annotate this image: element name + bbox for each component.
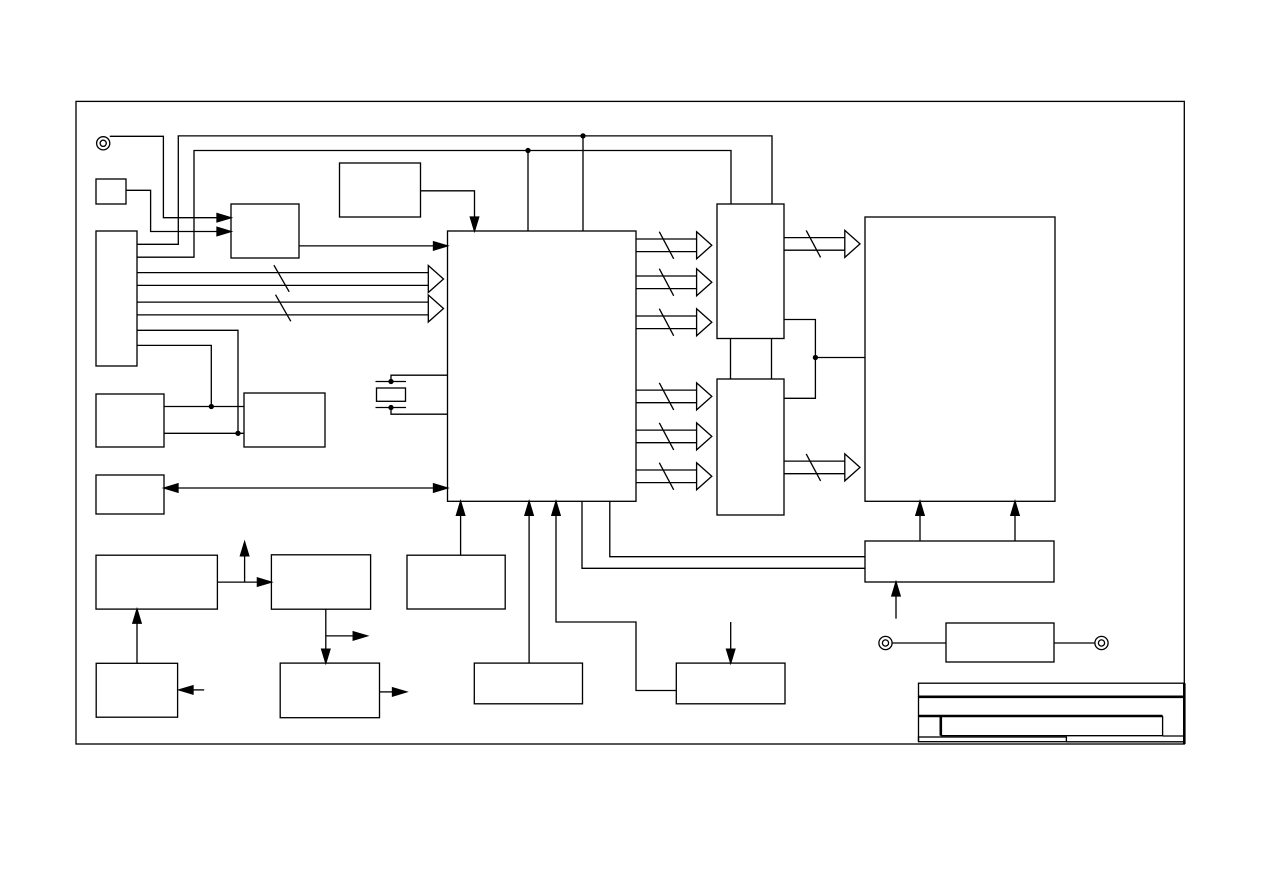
bus arrow central to R1 (2)	[636, 269, 712, 296]
bus slash	[659, 309, 673, 336]
box S small top-left	[96, 179, 126, 204]
arrow box C to central bottom	[456, 501, 464, 555]
bus arrow R2 to big box	[784, 454, 860, 481]
down arrow into box G top	[727, 622, 735, 663]
bus arrow T to central (lower)	[137, 295, 444, 322]
wire bracket to big box	[815, 357, 865, 359]
box H	[231, 204, 299, 258]
bus slash	[806, 454, 820, 481]
bus arrow T to central (upper)	[137, 266, 444, 293]
free up arrow from A-B wire	[240, 542, 248, 582]
arrow bar to big box left	[916, 501, 924, 541]
box D	[280, 663, 379, 718]
bus arrow central to R2 (1)	[636, 383, 712, 410]
bus slash	[659, 383, 673, 410]
wire box B down to box D with arrow	[322, 609, 330, 663]
box G	[676, 663, 785, 704]
junction dot	[581, 134, 585, 138]
title block	[919, 683, 1185, 744]
wire box TM to central box top with arrow	[421, 191, 479, 231]
bus arrow R1 to big box	[784, 230, 860, 257]
box A	[96, 555, 217, 609]
connector bullseye J1	[97, 137, 110, 150]
junction dot	[526, 149, 530, 153]
wire box T down right vertical	[137, 330, 238, 433]
bottom connector box	[946, 623, 1054, 662]
wire M1 to M2 lower	[164, 432, 244, 434]
bracket wire R1/R2 right side	[784, 320, 815, 399]
wire central bottom to bar box (upper)	[610, 501, 865, 556]
free right arrow from box D	[380, 688, 407, 696]
connector R1 to R2 left	[730, 339, 732, 380]
box R1	[717, 204, 784, 339]
free right arrow from B-D wire	[326, 632, 367, 640]
box B	[271, 555, 370, 609]
bus slash	[659, 269, 673, 296]
wire box H to central box with arrow	[299, 242, 448, 250]
arrow into bar box bottom	[892, 582, 900, 619]
arrow box E to box A	[133, 609, 141, 663]
bus arrow central to R2 (3)	[636, 463, 712, 490]
box C	[407, 555, 505, 609]
box F	[474, 663, 582, 704]
bar box	[865, 541, 1054, 582]
wire bullseye to bottom connector box	[892, 642, 946, 644]
bus slash	[276, 295, 291, 322]
bus slash	[274, 265, 289, 292]
box P	[96, 475, 164, 514]
bus slash	[806, 230, 820, 257]
box T tall left	[96, 231, 137, 366]
wire box S to box H with arrow	[126, 190, 231, 235]
wire J1 to box H with arrow	[110, 136, 231, 222]
arrow box F to central bottom	[525, 501, 533, 663]
big box	[865, 217, 1055, 501]
wire box T to box R1 top (lower run)	[137, 151, 731, 258]
box M2	[244, 393, 325, 447]
bus arrow central to R2 (2)	[636, 423, 712, 450]
wire box T to box R1 top (upper run)	[137, 136, 772, 244]
central box U1	[448, 231, 637, 501]
arrow bar to big box right	[1011, 501, 1019, 541]
box E	[96, 663, 177, 717]
double-headed arrow box P to central box	[164, 484, 448, 492]
wire box T down left vertical	[137, 345, 211, 406]
crystal Y1	[376, 375, 448, 414]
box TM top middle	[340, 163, 421, 217]
bus arrow central to R1 (1)	[636, 232, 712, 259]
wire central bottom to bar box (lower)	[582, 501, 865, 568]
bus arrow central to R1 (3)	[636, 309, 712, 336]
junction dot	[813, 356, 817, 360]
wire M1 to M2 upper	[164, 406, 244, 408]
box R2	[717, 379, 784, 515]
bus slash	[659, 423, 673, 450]
wire connector box to right bullseye	[1054, 642, 1095, 644]
wire box A to box B with arrow	[217, 578, 271, 586]
wire branch down to central box top	[527, 151, 529, 232]
junction dot	[236, 431, 240, 435]
connector bullseye left	[879, 636, 892, 649]
free left arrow into box E	[179, 686, 204, 694]
connector bullseye right	[1095, 636, 1108, 649]
bus slash	[659, 463, 673, 490]
connector R1 to R2 right	[771, 339, 773, 380]
box M1	[96, 394, 164, 447]
wire branch down to central box top	[582, 136, 584, 231]
junction dot	[209, 405, 213, 409]
bus slash	[659, 232, 673, 259]
wire box G to central bottom with arrow	[552, 501, 677, 690]
